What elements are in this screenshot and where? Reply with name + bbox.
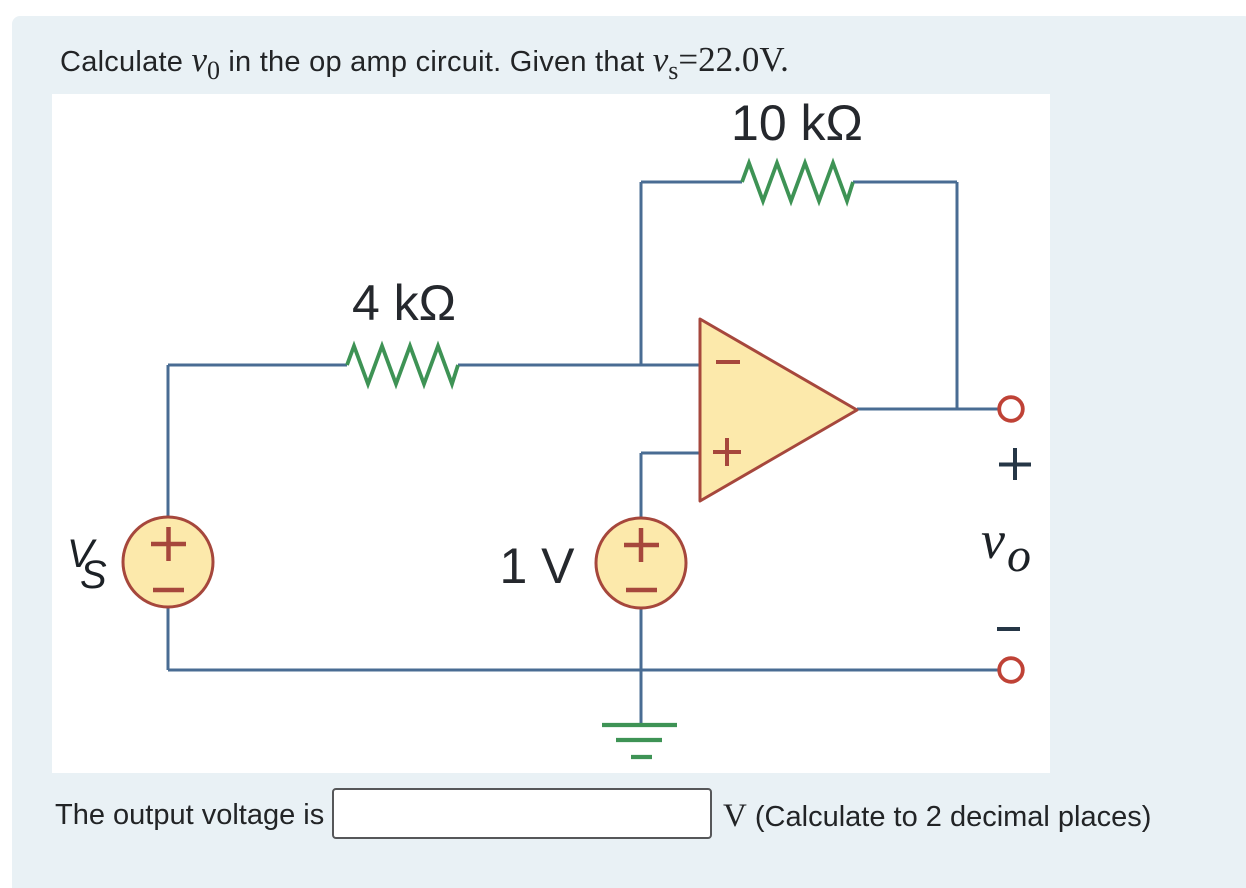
- svg-text:10 kΩ: 10 kΩ: [731, 95, 863, 151]
- svg-text:S: S: [80, 553, 107, 597]
- svg-text:o: o: [1007, 529, 1031, 582]
- svg-text:1 V: 1 V: [499, 538, 575, 594]
- svg-text:4 kΩ: 4 kΩ: [352, 275, 456, 331]
- svg-text:v: v: [981, 510, 1005, 570]
